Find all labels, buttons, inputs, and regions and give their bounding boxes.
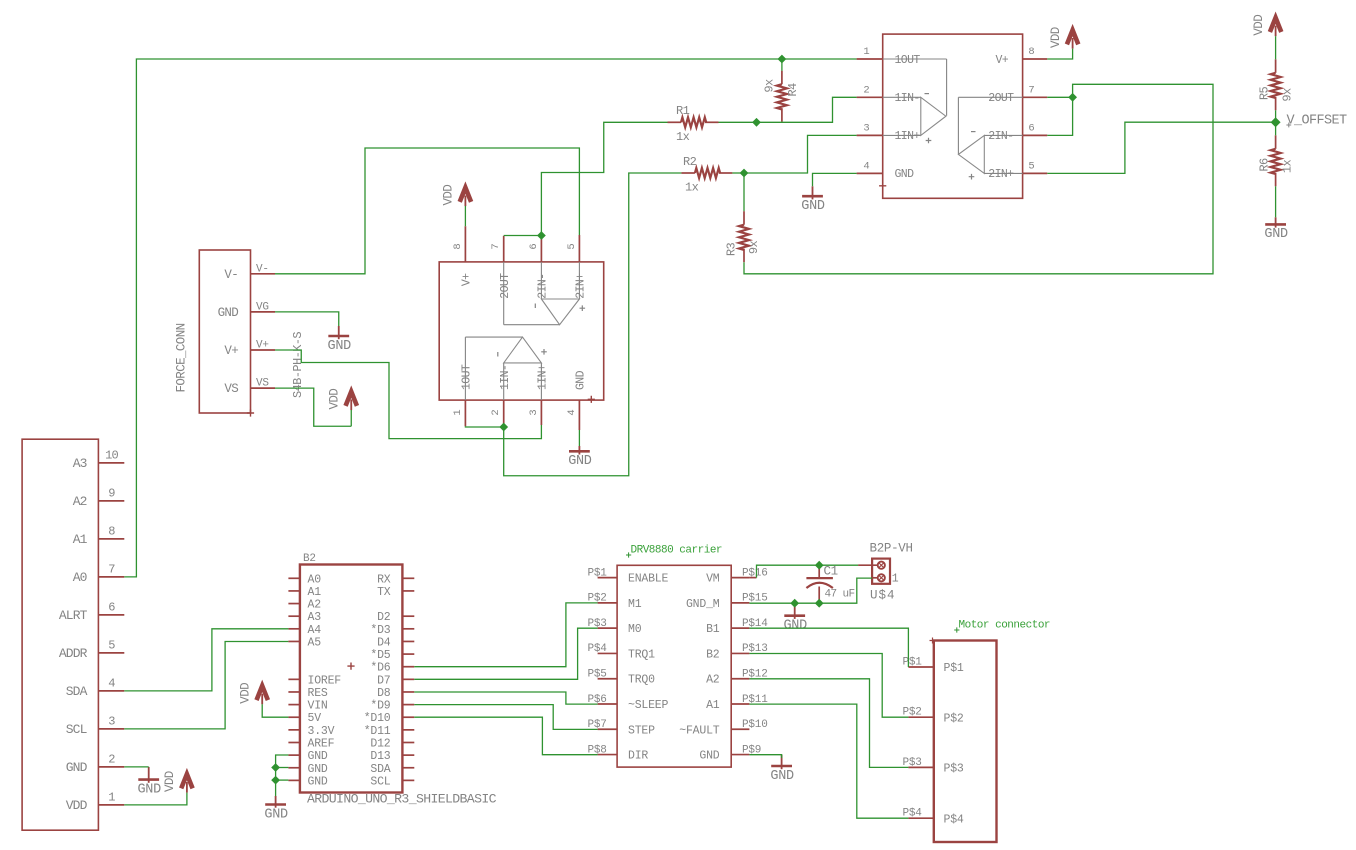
svg-text:7: 7 bbox=[490, 243, 502, 249]
svg-text:*D3: *D3 bbox=[370, 624, 390, 637]
pin P$3 M0 of DRV8880 bbox=[598, 627, 618, 629]
svg-text:A1: A1 bbox=[73, 532, 88, 547]
pin A2 of B2 bbox=[288, 603, 300, 605]
svg-text:D13: D13 bbox=[370, 750, 390, 763]
svg-text:IOREF: IOREF bbox=[308, 674, 342, 687]
wire net D10 B2 to DRV DIR bbox=[414, 717, 597, 755]
svg-text:A2: A2 bbox=[73, 494, 87, 509]
wire net VS FORCE_CONN to VDD bbox=[275, 388, 351, 426]
op-amp U1A internals bbox=[883, 59, 947, 135]
pin 1 circle of U$4 bbox=[878, 574, 885, 581]
svg-text:~SLEEP: ~SLEEP bbox=[628, 699, 669, 712]
origin cross of U2 bbox=[588, 396, 595, 403]
wire B2 GND pin16 stub bbox=[276, 779, 289, 781]
svg-text:3.3V: 3.3V bbox=[308, 725, 335, 738]
pin 7 of U2 bbox=[503, 236, 505, 262]
svg-text:6: 6 bbox=[108, 601, 115, 615]
wire U1 pin4 to ground bbox=[813, 173, 857, 186]
wire U2 pin8 to VDD bbox=[464, 206, 466, 226]
pin V- of FORCE_CONN bbox=[251, 273, 276, 275]
pin P$15 GND_M of DRV8880 bbox=[731, 602, 749, 604]
svg-text:GND: GND bbox=[1264, 227, 1288, 242]
pin 6 ALRT of J1 bbox=[98, 614, 124, 616]
svg-text:GND: GND bbox=[308, 750, 328, 763]
junction B2 GND a bbox=[271, 763, 280, 772]
svg-text:GND: GND bbox=[770, 769, 794, 784]
pin 2 of U1 bbox=[857, 96, 883, 98]
svg-text:FORCE_CONN: FORCE_CONN bbox=[175, 323, 189, 392]
origin cross of Motor connector bbox=[930, 638, 936, 644]
pin 2 of U2 bbox=[503, 400, 505, 426]
svg-text:R4: R4 bbox=[786, 83, 800, 97]
wire net SCL J1 to B2 A5 bbox=[124, 642, 288, 729]
svg-text:2IN+: 2IN+ bbox=[575, 273, 588, 299]
wire R5 top to VDD bbox=[1275, 36, 1277, 59]
resistor R6 1x bbox=[1275, 135, 1277, 149]
origin cross of FORCE_CONN bbox=[247, 409, 254, 416]
svg-text:1IN+: 1IN+ bbox=[895, 130, 921, 143]
pin P$1 of Motor connector bbox=[908, 666, 933, 668]
svg-text:D4: D4 bbox=[377, 636, 391, 649]
connector FORCE_CONN box bbox=[199, 250, 250, 413]
wire net A1 DRV P$11 to motor P$4 bbox=[749, 704, 908, 818]
svg-text:RX: RX bbox=[377, 573, 391, 586]
ground at U1 pin 4 bbox=[812, 186, 814, 199]
svg-text:5: 5 bbox=[108, 639, 115, 653]
svg-text:8: 8 bbox=[452, 243, 464, 249]
module B2 ARDUINO_UNO_R3_SHIELDBASIC box bbox=[300, 565, 403, 793]
svg-text:1x: 1x bbox=[676, 130, 690, 144]
svg-text:A0: A0 bbox=[308, 573, 322, 586]
pin D7 of B2 bbox=[402, 678, 414, 680]
svg-text:VDD: VDD bbox=[66, 798, 88, 813]
VDD symbol at U1 pin 8 bbox=[1067, 30, 1078, 44]
svg-text:R6: R6 bbox=[1258, 158, 1272, 172]
svg-text:A2: A2 bbox=[706, 674, 720, 687]
svg-text:2: 2 bbox=[863, 84, 869, 96]
wire R6 top to V_OFFSET bbox=[1275, 122, 1277, 135]
svg-text:SDA: SDA bbox=[370, 763, 390, 776]
svg-text:1OUT: 1OUT bbox=[461, 364, 474, 390]
svg-text:P$5: P$5 bbox=[588, 669, 607, 681]
wire net V- FORCE_CONN to U2 2IN+ pin5 bbox=[275, 148, 579, 274]
pin *D11 of B2 bbox=[402, 729, 414, 731]
svg-text:7: 7 bbox=[108, 563, 115, 577]
svg-text:GND: GND bbox=[895, 168, 915, 181]
svg-text:VDD: VDD bbox=[327, 389, 341, 410]
pin 8 of U1 bbox=[1023, 58, 1048, 60]
pin P$4 of Motor connector bbox=[908, 817, 933, 819]
junction on net 1IN- at R1 right bbox=[752, 118, 761, 127]
svg-text:GND: GND bbox=[218, 306, 239, 320]
wire U1 pin6 to junction bbox=[1047, 97, 1072, 135]
svg-text:VDD: VDD bbox=[1252, 15, 1266, 36]
svg-text:SCL: SCL bbox=[66, 722, 87, 737]
svg-text:GND: GND bbox=[568, 454, 592, 469]
pin 10 A3 of J1 bbox=[98, 462, 124, 464]
svg-text:47 uF: 47 uF bbox=[825, 589, 855, 601]
wire B2 GND pin15 stub bbox=[276, 767, 289, 769]
junction at U2 pin2 node bbox=[499, 423, 508, 432]
svg-text:P$1: P$1 bbox=[944, 662, 964, 675]
pin *D6 of B2 bbox=[402, 666, 414, 668]
svg-text:1x: 1x bbox=[1281, 160, 1295, 174]
wire U2 pin4 to ground bbox=[578, 430, 580, 446]
pin 2 GND of J1 bbox=[98, 766, 124, 768]
svg-text:R5: R5 bbox=[1258, 87, 1272, 101]
pin *D9 of B2 bbox=[402, 704, 414, 706]
wire net 1IN+ U1 from R2-R3 junction bbox=[744, 135, 857, 173]
capacitor C1 47 uF bbox=[818, 565, 820, 577]
svg-text:2OUT: 2OUT bbox=[988, 92, 1014, 105]
svg-text:RES: RES bbox=[308, 687, 328, 700]
pin 8 of U2 bbox=[464, 226, 466, 262]
pin SDA of B2 bbox=[402, 767, 414, 769]
wire net 2OUT-U1 2IN- to R3 bottom bbox=[744, 84, 1213, 273]
VDD symbol at FORCE_CONN VS pin bbox=[346, 392, 357, 406]
origin cross of U1 bbox=[879, 182, 886, 189]
ground at J1 GND pin bbox=[148, 767, 150, 783]
svg-text:STEP: STEP bbox=[628, 724, 655, 737]
pin A3 of B2 bbox=[288, 615, 300, 617]
svg-text:10: 10 bbox=[105, 449, 118, 463]
pin D13 of B2 bbox=[402, 754, 414, 756]
pin TX of B2 bbox=[402, 590, 414, 592]
svg-text:TRQ1: TRQ1 bbox=[628, 648, 655, 661]
pin *D3 of B2 bbox=[402, 628, 414, 630]
svg-text:B1: B1 bbox=[706, 623, 720, 636]
ground at FORCE_CONN VG pin bbox=[338, 326, 340, 339]
svg-text:9x: 9x bbox=[1281, 88, 1295, 102]
wire R2 right to R3 top junction bbox=[732, 172, 744, 174]
wire net D8 B2 to DRV ~SLEEP bbox=[414, 692, 597, 704]
pin P$5 TRQ0 of DRV8880 bbox=[598, 678, 618, 680]
svg-text:9x: 9x bbox=[763, 79, 777, 93]
wire net GND J1 pin2 bbox=[124, 766, 148, 768]
pin *D10 of B2 bbox=[402, 716, 414, 718]
pin A4 of B2 bbox=[288, 628, 300, 630]
svg-text:A4: A4 bbox=[308, 624, 322, 637]
junction GND_M ground tap bbox=[790, 599, 799, 608]
pin 1 of U1 bbox=[857, 58, 883, 60]
svg-text:D7: D7 bbox=[377, 674, 390, 687]
pin P$2 M1 of DRV8880 bbox=[598, 602, 618, 604]
junction C1 top bbox=[815, 561, 824, 570]
svg-text:VS: VS bbox=[256, 378, 269, 390]
svg-text:VS: VS bbox=[224, 382, 238, 396]
svg-text:*D10: *D10 bbox=[364, 712, 391, 725]
pin VS of FORCE_CONN bbox=[251, 387, 276, 389]
wire VDD arrow stem at FORCE_CONN VS bbox=[350, 410, 352, 426]
svg-text:M0: M0 bbox=[628, 623, 642, 636]
resistor R5 9x bbox=[1275, 59, 1277, 73]
wire net B1 DRV P$14 to motor P$1 bbox=[749, 628, 908, 667]
svg-text:8: 8 bbox=[1028, 46, 1034, 58]
svg-text:Motor connector: Motor connector bbox=[959, 620, 1051, 632]
svg-text:4: 4 bbox=[108, 677, 115, 691]
VDD symbol at J1 VDD pin bbox=[181, 774, 192, 788]
junction C1 bottom bbox=[815, 599, 824, 608]
pin IOREF of B2 bbox=[288, 678, 300, 680]
pin P$6 ~SLEEP of DRV8880 bbox=[598, 703, 618, 705]
svg-text:8: 8 bbox=[108, 525, 115, 539]
svg-text:*D6: *D6 bbox=[370, 662, 390, 675]
svg-text:7: 7 bbox=[1028, 84, 1034, 96]
svg-text:2IN-: 2IN- bbox=[537, 274, 550, 299]
pin 6 of U2 bbox=[540, 239, 542, 262]
pin RX of B2 bbox=[402, 577, 414, 579]
pin RES of B2 bbox=[288, 691, 300, 693]
svg-text:D2: D2 bbox=[377, 611, 391, 624]
svg-text:VG: VG bbox=[256, 301, 269, 313]
wire net 1OUT-U1 to A0 J1 bbox=[124, 59, 856, 577]
svg-text:P$3: P$3 bbox=[944, 763, 964, 776]
wire net R2 left to U2 1OUT 1IN- bbox=[504, 173, 682, 476]
pin P$3 of Motor connector bbox=[908, 766, 933, 768]
pin 3 of U2 bbox=[540, 400, 542, 425]
pin 5 ADDR of J1 bbox=[98, 652, 124, 654]
svg-text:B2P-VH: B2P-VH bbox=[870, 542, 913, 556]
wire net A2 DRV P$12 to motor P$3 bbox=[749, 679, 908, 768]
wire net D9 B2 to DRV STEP bbox=[414, 705, 597, 730]
pin P$9 GND of DRV8880 bbox=[731, 754, 749, 756]
svg-text:U$4: U$4 bbox=[870, 589, 896, 603]
svg-text:R2: R2 bbox=[683, 155, 697, 169]
svg-text:TRQ0: TRQ0 bbox=[628, 674, 655, 687]
svg-text:GND: GND bbox=[308, 763, 328, 776]
pin P$2 of Motor connector bbox=[908, 716, 933, 718]
pin A0 of B2 bbox=[288, 577, 300, 579]
resistor R2 1x bbox=[681, 172, 695, 174]
pin P$4 TRQ1 of DRV8880 bbox=[598, 652, 618, 654]
pin D2 of B2 bbox=[402, 615, 414, 617]
pin P$13 B2 of DRV8880 bbox=[731, 652, 749, 654]
pin 9 A2 of J1 bbox=[98, 500, 124, 502]
wire R4 top to net 1OUT bbox=[781, 59, 783, 71]
svg-text:5V: 5V bbox=[308, 712, 322, 725]
pin 4 SDA of J1 bbox=[98, 690, 124, 692]
svg-text:V+: V+ bbox=[996, 54, 1009, 67]
svg-text:GND: GND bbox=[801, 199, 825, 214]
wire net B2coil DRV P$13 to motor P$2 bbox=[749, 654, 908, 718]
svg-text:V_OFFSET: V_OFFSET bbox=[1287, 114, 1348, 129]
svg-text:V+: V+ bbox=[224, 344, 238, 358]
pin 3.3V of B2 bbox=[288, 729, 300, 731]
svg-text:GND: GND bbox=[264, 807, 288, 822]
svg-text:VDD: VDD bbox=[442, 185, 456, 206]
wire U2 pin6 stub top bbox=[540, 236, 542, 240]
pin 6 of U1 bbox=[1023, 134, 1048, 136]
pin P$12 A2 of DRV8880 bbox=[731, 678, 749, 680]
svg-text:VDD: VDD bbox=[163, 771, 177, 792]
svg-text:R3: R3 bbox=[725, 243, 739, 257]
svg-text:9x: 9x bbox=[747, 241, 761, 255]
pin A1 of B2 bbox=[288, 590, 300, 592]
wire net VM DRV P$16 to B2P-VH bbox=[749, 577, 756, 579]
svg-text:1: 1 bbox=[108, 791, 115, 805]
svg-text:1: 1 bbox=[892, 573, 899, 586]
wire net R1 left to U2 2OUT 2IN- bbox=[541, 122, 667, 235]
pin GND of B2 bbox=[288, 767, 300, 769]
wire U2 pin7 2OUT to junction bbox=[504, 235, 542, 237]
svg-text:SDA: SDA bbox=[66, 684, 88, 699]
pin 3 SCL of J1 bbox=[98, 728, 124, 730]
svg-text:~FAULT: ~FAULT bbox=[679, 724, 720, 737]
pin P$7 STEP of DRV8880 bbox=[598, 728, 618, 730]
junction at U2 pin6 node bbox=[537, 231, 546, 240]
op-amp IC U2 rotated dual op-amp box bbox=[439, 262, 604, 400]
svg-text:5: 5 bbox=[1028, 160, 1034, 172]
wire net GND B2 bbox=[276, 755, 289, 796]
svg-text:V-: V- bbox=[224, 268, 238, 282]
pin A5 of B2 bbox=[288, 640, 300, 642]
svg-text:GND: GND bbox=[66, 760, 88, 775]
svg-text:DIR: DIR bbox=[628, 750, 648, 763]
svg-text:B2: B2 bbox=[706, 648, 720, 661]
svg-text:P$1: P$1 bbox=[903, 657, 923, 669]
junction B2 GND b bbox=[271, 776, 280, 785]
svg-text:VDD: VDD bbox=[1049, 27, 1063, 48]
svg-text:ADDR: ADDR bbox=[59, 646, 88, 661]
wire R6 bottom to ground bbox=[1275, 186, 1277, 217]
op-amp U1B internals bbox=[958, 97, 1022, 173]
wire net VDD B2 5V bbox=[262, 704, 288, 717]
pin P$11 A1 of DRV8880 bbox=[731, 703, 749, 705]
pin 2 circle of U$4 bbox=[878, 562, 885, 569]
svg-text:ARDUINO_UNO_R3_SHIELDBASIC: ARDUINO_UNO_R3_SHIELDBASIC bbox=[307, 792, 497, 807]
svg-text:6: 6 bbox=[1028, 122, 1034, 134]
svg-text:VM: VM bbox=[706, 573, 720, 586]
module U3 DRV8880 carrier box bbox=[617, 565, 731, 767]
connector J1 ADC breakout box bbox=[22, 439, 98, 830]
resistor R4 9x bbox=[781, 71, 783, 85]
svg-text:6: 6 bbox=[528, 243, 540, 249]
svg-text:GND_M: GND_M bbox=[686, 598, 720, 611]
svg-text:M1: M1 bbox=[628, 598, 642, 611]
ground at DRV8880 GND P$9 bbox=[781, 755, 783, 770]
wire net GND_M DRV P$15 to B2P-VH pin1 bbox=[749, 578, 872, 603]
svg-text:2: 2 bbox=[490, 409, 502, 415]
svg-text:2IN+: 2IN+ bbox=[988, 168, 1014, 181]
junction at R4 top bbox=[778, 55, 787, 64]
pin P$16 VM of DRV8880 bbox=[731, 577, 749, 579]
wire net V+ FORCE_CONN to U2 1IN+ pin3 bbox=[275, 350, 541, 439]
pin 7 A0 of J1 bbox=[98, 576, 124, 578]
svg-text:4: 4 bbox=[566, 409, 578, 415]
resistor R3 9x bbox=[743, 211, 745, 225]
wire U2 pin1 to pin2 junction bbox=[465, 425, 503, 428]
svg-text:1: 1 bbox=[452, 409, 464, 415]
svg-text:C1: C1 bbox=[824, 565, 838, 579]
pin VIN of B2 bbox=[288, 704, 300, 706]
pin 5 of U1 bbox=[1023, 172, 1048, 174]
wire R3 top lead bbox=[743, 173, 745, 211]
svg-text:A5: A5 bbox=[308, 636, 322, 649]
svg-text:A2: A2 bbox=[308, 599, 322, 612]
junction R2-R3 node bbox=[740, 169, 749, 178]
svg-text:TX: TX bbox=[377, 586, 391, 599]
svg-text:V-: V- bbox=[256, 263, 269, 275]
svg-text:P$4: P$4 bbox=[944, 813, 964, 826]
wire net SDA J1 to B2 A4 bbox=[124, 629, 288, 691]
svg-text:D8: D8 bbox=[377, 687, 391, 700]
svg-text:*D9: *D9 bbox=[370, 700, 390, 713]
pin 1 of U2 bbox=[464, 400, 466, 426]
pin VG of FORCE_CONN bbox=[251, 311, 276, 313]
svg-text:2: 2 bbox=[108, 753, 115, 767]
svg-text:A0: A0 bbox=[73, 570, 87, 585]
wire net V_OFFSET from U1 pin5 to divider bbox=[1047, 122, 1275, 173]
wire net D6 B2 to DRV M1 bbox=[414, 603, 597, 667]
svg-text:3: 3 bbox=[108, 715, 115, 729]
pin D4 of B2 bbox=[402, 640, 414, 642]
svg-text:AREF: AREF bbox=[308, 737, 335, 750]
pin P$10 ~FAULT of DRV8880 bbox=[731, 728, 749, 730]
svg-text:GND: GND bbox=[308, 775, 328, 788]
pin lead of U$4 pin 2 bbox=[858, 564, 878, 566]
pin D12 of B2 bbox=[402, 741, 414, 743]
svg-text:VDD: VDD bbox=[238, 683, 252, 704]
pin P$8 DIR of DRV8880 bbox=[598, 754, 618, 756]
svg-text:V+: V+ bbox=[256, 340, 269, 352]
ground at B2 GND pins bbox=[275, 796, 277, 808]
pin GND of B2 bbox=[288, 779, 300, 781]
svg-text:GND: GND bbox=[137, 782, 161, 797]
pin 5V of B2 bbox=[288, 716, 300, 718]
svg-text:A3: A3 bbox=[308, 611, 322, 624]
wire net VG FORCE_CONN to ground bbox=[275, 312, 339, 326]
pin 3 of U1 bbox=[857, 134, 883, 136]
pin P$1 ENABLE of DRV8880 bbox=[598, 577, 618, 579]
svg-text:GND: GND bbox=[783, 619, 807, 634]
connector U$4 B2P-VH box bbox=[872, 559, 890, 584]
svg-text:1IN+: 1IN+ bbox=[537, 364, 550, 390]
svg-text:1OUT: 1OUT bbox=[895, 54, 921, 67]
svg-text:R1: R1 bbox=[676, 104, 690, 118]
svg-text:2OUT: 2OUT bbox=[499, 273, 512, 299]
op-amp U2A internals rotated bbox=[465, 337, 541, 400]
svg-text:3: 3 bbox=[863, 122, 869, 134]
pin GND of B2 bbox=[288, 754, 300, 756]
svg-text:3: 3 bbox=[528, 409, 540, 415]
svg-text:P$10: P$10 bbox=[742, 719, 768, 731]
svg-text:ALRT: ALRT bbox=[59, 608, 88, 623]
wire net D7 B2 to DRV M0 bbox=[414, 628, 597, 679]
pin D8 of B2 bbox=[402, 691, 414, 693]
resistor R1 1x bbox=[668, 121, 682, 123]
ground at U2 pin 4 bbox=[578, 446, 580, 455]
ground at R6 bbox=[1275, 217, 1277, 227]
junction V_OFFSET node bbox=[1271, 117, 1281, 127]
wire U1 pin8 to VDD bbox=[1047, 49, 1072, 59]
svg-text:V+: V+ bbox=[461, 273, 474, 286]
ground at DRV8880 GND_M bbox=[794, 603, 796, 619]
svg-text:A1: A1 bbox=[706, 699, 720, 712]
op-amp IC U1 dual op-amp box bbox=[883, 34, 1023, 198]
svg-text:GND: GND bbox=[328, 339, 352, 354]
pin SCL of B2 bbox=[402, 779, 414, 781]
svg-text:ENABLE: ENABLE bbox=[628, 573, 669, 586]
svg-text:1x: 1x bbox=[685, 181, 699, 195]
pin 8 A1 of J1 bbox=[98, 538, 124, 540]
pin 1 VDD of J1 bbox=[98, 804, 124, 806]
VDD symbol at R5 bbox=[1270, 18, 1281, 32]
svg-text:GND: GND bbox=[699, 750, 719, 763]
op-amp U2B internals rotated bbox=[504, 262, 580, 325]
pin AREF of B2 bbox=[288, 741, 300, 743]
svg-text:D12: D12 bbox=[370, 737, 390, 750]
svg-text:9: 9 bbox=[108, 487, 115, 501]
